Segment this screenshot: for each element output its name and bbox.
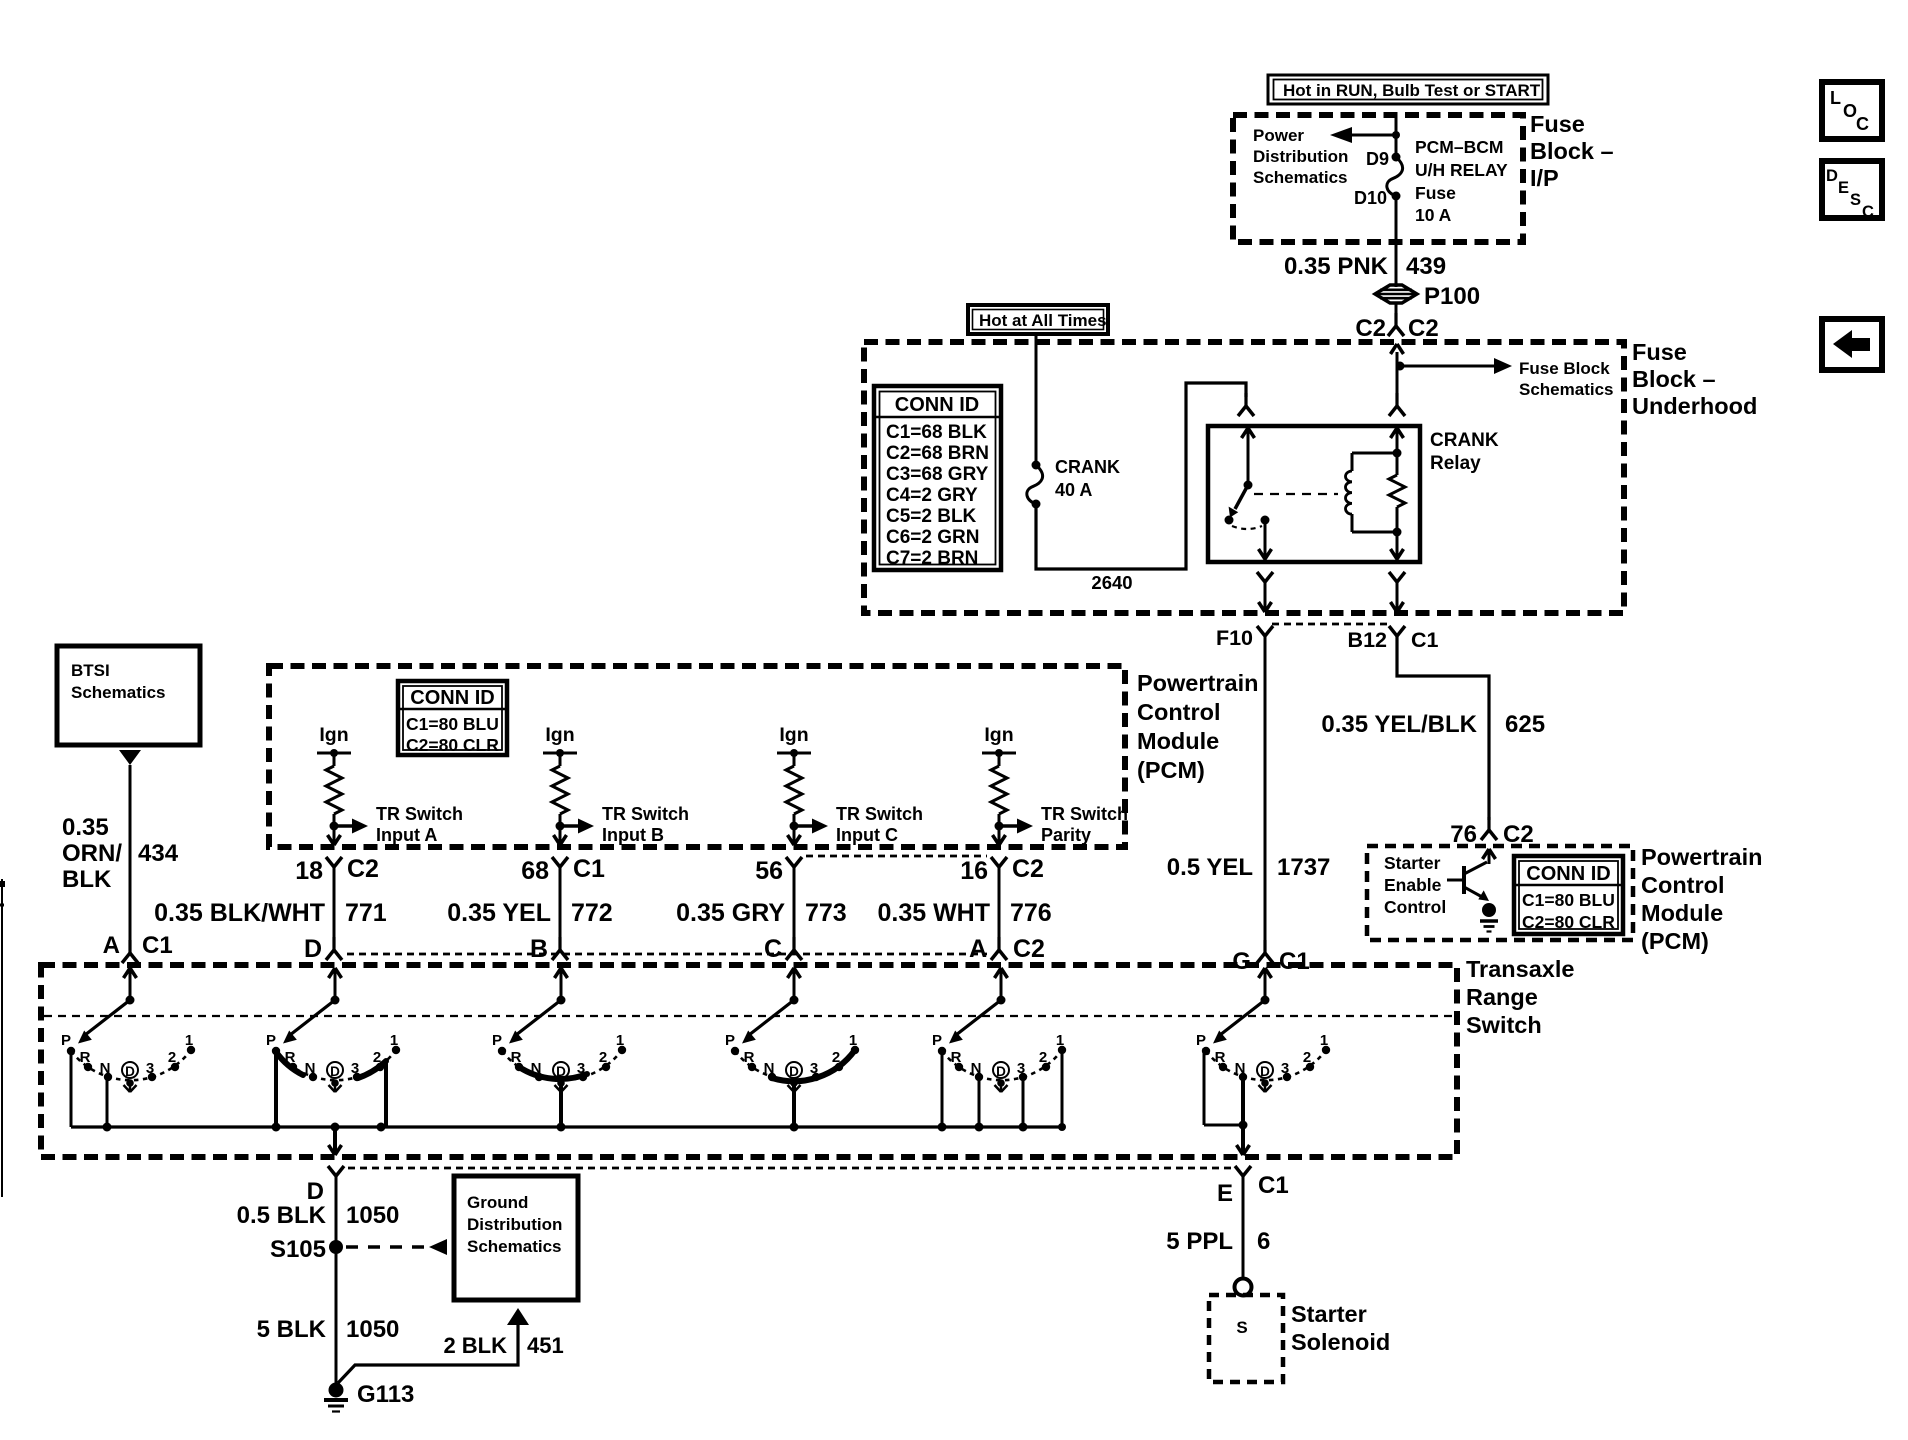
- svg-text:Range: Range: [1466, 984, 1538, 1010]
- svg-text:Input A: Input A: [376, 825, 437, 845]
- svg-text:Distribution: Distribution: [467, 1215, 562, 1234]
- relay output connector forks: [1257, 572, 1405, 592]
- svg-text:(PCM): (PCM): [1641, 928, 1709, 954]
- svg-text:Enable: Enable: [1384, 875, 1442, 895]
- svg-text:BTSI: BTSI: [71, 661, 110, 680]
- bus junction dots: [103, 1123, 1067, 1132]
- svg-text:Switch: Switch: [1466, 1012, 1542, 1038]
- svg-text:R: R: [1215, 1049, 1226, 1066]
- svg-text:C2=80 CLR: C2=80 CLR: [1522, 912, 1615, 932]
- CONN ID table (fuse block): [874, 386, 1001, 570]
- svg-text:1050: 1050: [346, 1202, 399, 1229]
- connector C2/C2 fork: [1355, 313, 1438, 342]
- svg-text:E: E: [1838, 179, 1849, 197]
- svg-text:P: P: [61, 1032, 71, 1049]
- svg-text:P: P: [1196, 1032, 1206, 1049]
- svg-text:0.35: 0.35: [62, 814, 109, 841]
- label box: Hot at All Times: [968, 305, 1108, 334]
- PCM pin 56 connector: [755, 857, 802, 885]
- svg-text:16: 16: [960, 857, 988, 885]
- wire label 2640: [1091, 572, 1132, 593]
- label: Starter Solenoid: [1291, 1301, 1390, 1355]
- CRANK relay box: [1208, 426, 1420, 562]
- svg-text:451: 451: [527, 1333, 564, 1358]
- svg-text:D10: D10: [1354, 188, 1387, 208]
- svg-text:N: N: [764, 1060, 775, 1077]
- wafer 4 drop wire: [792, 1086, 796, 1127]
- svg-text:C2: C2: [347, 855, 379, 883]
- svg-text:1: 1: [185, 1032, 193, 1049]
- junction dot D9 branch: [1392, 131, 1400, 139]
- text: Ground Distribution Schematics: [467, 1193, 562, 1256]
- svg-text:C2: C2: [1012, 855, 1044, 883]
- wire 625 B12 to PCM pin 76: [1397, 636, 1489, 820]
- svg-text:C2: C2: [1408, 315, 1439, 342]
- wafer 6 drop wires: [1204, 1048, 1248, 1130]
- relay switch blade: [1229, 485, 1248, 518]
- svg-text:Module: Module: [1641, 900, 1723, 926]
- svg-text:Schematics: Schematics: [1519, 380, 1614, 399]
- connector dashed link 56-16: [806, 855, 987, 858]
- pin label D9: [1366, 149, 1389, 169]
- svg-text:Transaxle: Transaxle: [1466, 956, 1574, 982]
- svg-text:D: D: [1826, 167, 1838, 185]
- svg-text:P: P: [725, 1032, 735, 1049]
- svg-text:Block –: Block –: [1530, 138, 1614, 164]
- wire 434 from BTSI: [119, 750, 141, 947]
- TR switch pin B connector: [530, 935, 568, 963]
- svg-text:Powertrain: Powertrain: [1137, 670, 1258, 696]
- svg-text:0.35 YEL: 0.35 YEL: [447, 899, 551, 927]
- svg-text:E: E: [1217, 1180, 1233, 1207]
- svg-text:3: 3: [146, 1060, 154, 1077]
- connector dashed link D-A: [347, 953, 987, 956]
- label: Transaxle Range Switch: [1466, 956, 1574, 1038]
- label: CRANK Relay: [1430, 430, 1499, 474]
- wafer 1 drop wires: [71, 1051, 107, 1127]
- svg-text:1: 1: [849, 1032, 857, 1049]
- svg-text:3: 3: [1281, 1060, 1289, 1077]
- svg-text:773: 773: [805, 899, 847, 927]
- PCM pin 18 connector: [295, 855, 379, 885]
- relay switch output wire: [1259, 520, 1272, 560]
- svg-text:434: 434: [138, 840, 179, 867]
- wafer 2 drop wires: [276, 1051, 386, 1127]
- crank relay pin 1 connector fork: [1238, 393, 1254, 416]
- arrow to Fuse Block Schematics: [1400, 358, 1512, 374]
- svg-text:Starter: Starter: [1291, 1301, 1367, 1327]
- transaxle switch wafer 1: [61, 968, 195, 1092]
- switch output D wire: [329, 1127, 342, 1155]
- fuse block I/P dashed box: [1233, 115, 1523, 242]
- svg-text:Powertrain: Powertrain: [1641, 844, 1762, 870]
- svg-text:D: D: [307, 1178, 324, 1205]
- svg-text:C6=2 GRN: C6=2 GRN: [886, 527, 979, 548]
- svg-text:0.35 WHT: 0.35 WHT: [877, 899, 990, 927]
- label P100: [1424, 283, 1480, 310]
- svg-text:CRANK: CRANK: [1055, 457, 1120, 477]
- CONN ID table (PCM TR inputs): [398, 681, 507, 755]
- svg-text:N: N: [100, 1060, 111, 1077]
- connector A C1 (BTSI): [103, 932, 173, 963]
- svg-text:Solenoid: Solenoid: [1291, 1329, 1390, 1355]
- transaxle switch wafer 4: [725, 968, 859, 1092]
- svg-text:C7=2 BRN: C7=2 BRN: [886, 548, 978, 569]
- text: Power Distribution Schematics: [1253, 126, 1348, 187]
- relay actuation dashed line: [1254, 493, 1338, 495]
- svg-text:Ground: Ground: [467, 1193, 528, 1212]
- svg-text:C1=80 BLU: C1=80 BLU: [1522, 890, 1615, 910]
- svg-text:0.5 YEL: 0.5 YEL: [1167, 854, 1253, 881]
- svg-text:C1=80 BLU: C1=80 BLU: [406, 714, 499, 734]
- transaxle range switch dashed box: [41, 965, 1457, 1157]
- wire 772: [559, 867, 562, 946]
- text: Starter Enable Control: [1384, 853, 1446, 917]
- svg-text:Starter: Starter: [1384, 853, 1441, 873]
- starter solenoid dashed box: [1209, 1295, 1283, 1382]
- wire label 0.35 BLK/WHT 771: [154, 899, 387, 927]
- svg-text:TR Switch: TR Switch: [602, 804, 689, 824]
- svg-text:1: 1: [390, 1032, 398, 1049]
- svg-text:C2: C2: [1013, 935, 1045, 963]
- svg-text:F10: F10: [1216, 626, 1253, 650]
- svg-text:CONN ID: CONN ID: [1526, 863, 1610, 885]
- fuse PCM-BCM U/H RELAY 10A: [1387, 153, 1403, 201]
- splice S105: [270, 1236, 343, 1263]
- PCM pin 16 connector: [960, 855, 1044, 885]
- label: Powertrain Control Module (PCM) [starter enable]: [1641, 844, 1762, 954]
- svg-text:6: 6: [1257, 1228, 1270, 1255]
- svg-text:Fuse: Fuse: [1632, 339, 1687, 365]
- svg-text:2: 2: [168, 1049, 176, 1066]
- svg-text:D: D: [125, 1064, 135, 1079]
- svg-text:A: A: [969, 935, 987, 963]
- transaxle switch wafer 3: [492, 968, 626, 1092]
- svg-text:40 A: 40 A: [1055, 480, 1092, 500]
- svg-text:P: P: [266, 1032, 276, 1049]
- PCM pull-up resistor 3 (TR Switch Input C): [777, 724, 923, 845]
- svg-text:C1: C1: [1258, 1172, 1289, 1199]
- svg-text:Schematics: Schematics: [1253, 168, 1348, 187]
- switch internal dotted divider: [44, 1015, 1455, 1017]
- svg-text:Control: Control: [1137, 699, 1221, 725]
- dashed reference arrow to ground distribution: [346, 1239, 447, 1255]
- TR switch pin D connector: [304, 935, 342, 963]
- relay switch pivot: [1244, 481, 1253, 490]
- svg-text:B12: B12: [1348, 628, 1387, 652]
- svg-text:3: 3: [810, 1060, 818, 1077]
- svg-text:Ign: Ign: [319, 724, 348, 746]
- svg-text:D: D: [996, 1064, 1006, 1079]
- connector 76 C2: [1450, 817, 1533, 848]
- terminal label S: [1236, 1318, 1247, 1337]
- svg-text:2 BLK: 2 BLK: [443, 1333, 507, 1358]
- svg-text:TR Switch: TR Switch: [836, 804, 923, 824]
- svg-text:C: C: [764, 935, 782, 963]
- svg-text:R: R: [951, 1049, 962, 1066]
- svg-text:P: P: [932, 1032, 942, 1049]
- transistor Q starter enable: [1447, 862, 1489, 901]
- svg-text:N: N: [1235, 1060, 1246, 1077]
- wire label 5 PPL 6: [1166, 1228, 1270, 1255]
- relay contact dashed link: [1232, 526, 1262, 529]
- pass-through grommet P100: [1375, 285, 1417, 303]
- label: Powertrain Control Module (PCM) [relay feed]: [1137, 670, 1258, 783]
- svg-text:(PCM): (PCM): [1137, 757, 1205, 783]
- svg-text:L: L: [1830, 88, 1841, 108]
- wire label 5 BLK 1050: [257, 1316, 400, 1343]
- page scan edge line: [0, 879, 5, 1197]
- wire 776: [998, 867, 1001, 946]
- svg-text:D9: D9: [1366, 149, 1389, 169]
- relay switch NO contact: [1225, 516, 1234, 525]
- svg-text:2: 2: [1303, 1049, 1311, 1066]
- transaxle switch wafer 2: [266, 968, 400, 1092]
- ring terminal: [1235, 1279, 1252, 1296]
- svg-text:0.35 PNK: 0.35 PNK: [1284, 253, 1389, 280]
- TR switch pin A connector: [969, 935, 1045, 963]
- svg-text:Schematics: Schematics: [467, 1237, 562, 1256]
- svg-text:Ign: Ign: [545, 724, 574, 746]
- connector G C1: [1232, 940, 1309, 975]
- svg-text:CONN ID: CONN ID: [895, 394, 979, 416]
- svg-text:N: N: [971, 1060, 982, 1077]
- svg-text:0.35 YEL/BLK: 0.35 YEL/BLK: [1321, 711, 1477, 738]
- wire label 0.35 WHT 776: [877, 899, 1051, 927]
- svg-text:C1: C1: [142, 932, 173, 959]
- wire label 0.35 ORN/BLK 434: [62, 814, 179, 893]
- svg-text:1: 1: [1056, 1032, 1064, 1049]
- svg-text:0.35 GRY: 0.35 GRY: [676, 899, 785, 927]
- connector F10: [1216, 626, 1273, 650]
- text: PCM-BCM U/H RELAY Fuse 10 A: [1415, 137, 1508, 225]
- svg-text:G113: G113: [357, 1381, 414, 1408]
- relay switch output contact: [1261, 516, 1270, 525]
- svg-text:C: C: [1856, 114, 1869, 134]
- svg-text:C2=68 BRN: C2=68 BRN: [886, 443, 989, 464]
- svg-text:TR Switch: TR Switch: [376, 804, 463, 824]
- svg-text:I/P: I/P: [1530, 165, 1559, 191]
- svg-text:Parity: Parity: [1041, 825, 1091, 845]
- svg-text:A: A: [103, 932, 120, 959]
- svg-text:C4=2 GRY: C4=2 GRY: [886, 485, 978, 506]
- junction dot fuse block feed: [1396, 362, 1405, 371]
- svg-text:1: 1: [1320, 1032, 1328, 1049]
- svg-text:C1: C1: [1411, 628, 1439, 652]
- svg-text:C1: C1: [573, 855, 605, 883]
- svg-text:S: S: [1236, 1318, 1247, 1337]
- wire from C2 into fuse block: [1391, 344, 1404, 366]
- transaxle switch wafer 6: [1196, 968, 1330, 1092]
- wafer 3 contact strip R-3: [519, 1067, 587, 1079]
- svg-text:CONN ID: CONN ID: [410, 687, 494, 709]
- wire 2640 fuse to crank relay: [1036, 383, 1246, 569]
- svg-text:P: P: [492, 1032, 502, 1049]
- svg-text:Fuse: Fuse: [1530, 111, 1585, 137]
- ground distribution schematics box: [454, 1176, 578, 1300]
- svg-text:Module: Module: [1137, 728, 1219, 754]
- wafer 4 contact strip N-1: [772, 1050, 855, 1081]
- svg-text:B: B: [530, 935, 548, 963]
- svg-text:BLK: BLK: [62, 866, 112, 893]
- svg-text:R: R: [744, 1049, 755, 1066]
- ground G113: [324, 1381, 414, 1412]
- svg-text:Hot at All Times: Hot at All Times: [979, 311, 1107, 330]
- back-arrow nav box: [1822, 319, 1882, 370]
- wire label 0.35 YEL/BLK 625: [1321, 711, 1545, 738]
- TR switch pin C connector: [764, 935, 802, 963]
- svg-text:R: R: [80, 1049, 91, 1066]
- PCM pull-up resistor 1 (TR Switch Input A): [317, 724, 463, 845]
- PCM pull-up resistor 4 (TR Switch Parity): [982, 724, 1128, 845]
- wire label 0.5 YEL 1737: [1167, 854, 1331, 881]
- relay output wires to box edge: [1259, 592, 1404, 612]
- PCM TR-switch dashed box: [269, 666, 1125, 847]
- svg-text:2: 2: [1039, 1049, 1047, 1066]
- svg-text:2: 2: [599, 1049, 607, 1066]
- PCM pull-up resistor 2 (TR Switch Input B): [543, 724, 689, 845]
- PCM pin 76 entry wire: [1483, 849, 1496, 864]
- svg-text:Distribution: Distribution: [1253, 147, 1348, 166]
- svg-text:P100: P100: [1424, 283, 1480, 310]
- connector D (ground output): [307, 1166, 344, 1205]
- svg-text:5 BLK: 5 BLK: [257, 1316, 327, 1343]
- connector dashed link D-E: [348, 1167, 1231, 1170]
- relay coil: [1346, 453, 1398, 532]
- svg-text:C2=80 CLR: C2=80 CLR: [406, 735, 499, 755]
- svg-text:C2: C2: [1355, 315, 1386, 342]
- label: Fuse Block - I/P: [1530, 111, 1614, 191]
- wire 1050 upper: [335, 1176, 338, 1390]
- LOC nav box: [1822, 82, 1882, 139]
- wire from Hot at All Times to CRANK fuse: [1035, 334, 1038, 465]
- svg-text:R: R: [511, 1049, 522, 1066]
- svg-text:D: D: [330, 1064, 340, 1079]
- wire 771: [333, 867, 336, 946]
- ground symbol (PCM internal): [1480, 903, 1498, 932]
- wire label 0.35 YEL 772: [447, 899, 613, 927]
- svg-text:N: N: [305, 1060, 316, 1077]
- wire 439 from fuse to P100: [1395, 196, 1398, 287]
- wire P100 to C2 connector: [1395, 303, 1398, 316]
- wire label 0.35 PNK 439: [1284, 253, 1446, 280]
- svg-text:Underhood: Underhood: [1632, 393, 1757, 419]
- relay switch common wire: [1242, 428, 1255, 485]
- svg-text:S105: S105: [270, 1236, 326, 1263]
- wire down to crank relay pin 3: [1389, 366, 1405, 416]
- svg-text:1737: 1737: [1277, 854, 1330, 881]
- CONN ID table (PCM): [1514, 856, 1623, 934]
- wire 451 from ground distribution: [338, 1308, 529, 1383]
- connector dashed link F10-B12: [1272, 623, 1390, 626]
- wafer 2 contact strip P-R: [276, 1052, 303, 1075]
- svg-text:S: S: [1850, 191, 1861, 209]
- wire from I/P box top to fuse: [1395, 115, 1398, 157]
- svg-text:5 PPL: 5 PPL: [1166, 1228, 1233, 1255]
- label: Fuse Block - Underhood: [1632, 339, 1757, 419]
- svg-text:D: D: [789, 1064, 799, 1079]
- label box: Hot in RUN, Bulb Test or START: [1268, 75, 1548, 104]
- svg-text:Power: Power: [1253, 126, 1304, 145]
- svg-text:3: 3: [351, 1060, 359, 1077]
- svg-text:D: D: [1260, 1064, 1270, 1079]
- svg-text:C1=68 BLK: C1=68 BLK: [886, 422, 987, 443]
- text: Fuse Block Schematics: [1519, 359, 1614, 399]
- svg-text:2640: 2640: [1091, 572, 1132, 593]
- arrow to Power Distribution Schematics: [1330, 127, 1396, 143]
- wafer 3 drop wire: [559, 1086, 563, 1127]
- svg-text:Control: Control: [1384, 897, 1446, 917]
- wire 773: [793, 867, 796, 946]
- wire 6 to starter solenoid: [1242, 1176, 1245, 1278]
- text: CRANK 40 A: [1055, 457, 1120, 500]
- text: BTSI Schematics: [71, 661, 166, 702]
- svg-text:625: 625: [1505, 711, 1545, 738]
- svg-text:CRANK: CRANK: [1430, 430, 1499, 451]
- PCM starter-enable dashed box: [1367, 846, 1633, 940]
- svg-text:C: C: [1862, 203, 1874, 221]
- svg-text:0.35 BLK/WHT: 0.35 BLK/WHT: [154, 899, 325, 927]
- wire 1737 F10 to G: [1264, 636, 1267, 945]
- svg-text:U/H RELAY: U/H RELAY: [1415, 160, 1508, 180]
- BTSI schematics box: [57, 646, 200, 745]
- svg-text:TR Switch: TR Switch: [1041, 804, 1128, 824]
- PCM pin 68 connector: [521, 855, 605, 885]
- svg-text:68: 68: [521, 857, 549, 885]
- svg-text:3: 3: [1017, 1060, 1025, 1077]
- svg-text:776: 776: [1010, 899, 1052, 927]
- svg-text:439: 439: [1406, 253, 1446, 280]
- svg-text:Ign: Ign: [984, 724, 1013, 746]
- svg-text:Schematics: Schematics: [71, 683, 166, 702]
- svg-text:56: 56: [755, 857, 783, 885]
- relay coil suppression resistor: [1389, 449, 1405, 537]
- wire label 2 BLK 451: [443, 1333, 563, 1358]
- svg-text:18: 18: [295, 857, 323, 885]
- svg-text:C1: C1: [1279, 948, 1310, 975]
- svg-text:Input B: Input B: [602, 825, 664, 845]
- svg-text:ORN/: ORN/: [62, 840, 122, 867]
- svg-text:C3=68 GRY: C3=68 GRY: [886, 464, 989, 485]
- fuse block underhood dashed box: [864, 342, 1624, 613]
- svg-text:Fuse Block: Fuse Block: [1519, 359, 1610, 378]
- relay coil ground-side wire: [1391, 532, 1404, 560]
- svg-text:Hot in RUN, Bulb Test or START: Hot in RUN, Bulb Test or START: [1283, 81, 1541, 100]
- wire label 0.5 BLK 1050: [237, 1202, 400, 1229]
- svg-text:Relay: Relay: [1430, 453, 1481, 474]
- svg-text:PCM–BCM: PCM–BCM: [1415, 137, 1503, 157]
- connector B12 C1: [1348, 626, 1439, 652]
- svg-text:10 A: 10 A: [1415, 205, 1452, 225]
- svg-text:O: O: [1843, 101, 1857, 121]
- svg-text:Ign: Ign: [779, 724, 808, 746]
- svg-text:C5=2 BLK: C5=2 BLK: [886, 506, 977, 527]
- wafer 2 contact strip 3-2: [358, 1061, 386, 1078]
- svg-text:0.5 BLK: 0.5 BLK: [237, 1202, 327, 1229]
- pin label D10: [1354, 188, 1387, 208]
- svg-text:Control: Control: [1641, 872, 1725, 898]
- svg-text:1: 1: [616, 1032, 624, 1049]
- transaxle switch wafer 5: [932, 968, 1066, 1092]
- svg-text:Block –: Block –: [1632, 366, 1716, 392]
- svg-text:D: D: [304, 935, 322, 963]
- fuse CRANK 40A: [1027, 461, 1043, 509]
- svg-text:772: 772: [571, 899, 613, 927]
- connector E C1: [1217, 1166, 1289, 1207]
- svg-text:1050: 1050: [346, 1316, 399, 1343]
- wire label 0.35 GRY 773: [676, 899, 847, 927]
- svg-text:G: G: [1232, 948, 1251, 975]
